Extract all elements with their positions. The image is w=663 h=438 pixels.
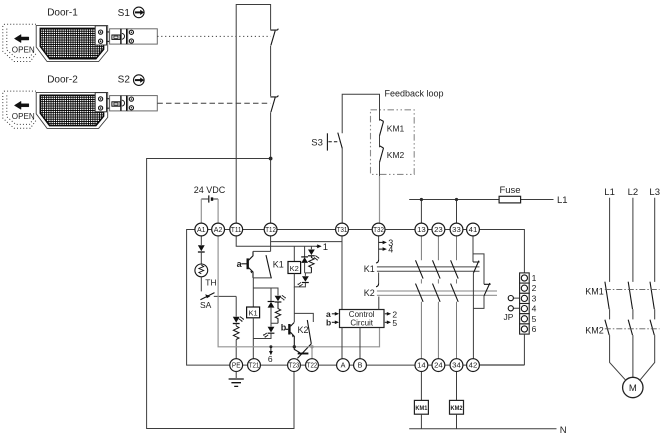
label Fuse: [499, 185, 520, 196]
svg-text:T32: T32: [373, 225, 384, 234]
LED indicator left: [233, 296, 244, 323]
svg-text:KM1: KM1: [585, 286, 604, 296]
label Door-1: [47, 7, 78, 18]
jumper pins JP: [508, 296, 519, 311]
svg-text:33: 33: [452, 225, 461, 234]
svg-text:TH: TH: [205, 277, 216, 287]
terminal 24: [432, 359, 445, 372]
contact 41-42 NC blade (K1 row): [473, 261, 480, 273]
KM1 linkage dash line: [605, 289, 660, 291]
terminal 34: [450, 359, 463, 372]
label N: [560, 425, 567, 436]
label K1 contact: [273, 260, 284, 270]
svg-text:L2: L2: [628, 187, 639, 198]
svg-text:KM2: KM2: [451, 405, 463, 412]
svg-text:Fuse: Fuse: [499, 185, 520, 196]
svg-text:24 VDC: 24 VDC: [194, 185, 226, 195]
label a: [237, 259, 243, 269]
label K2 contact: [298, 325, 309, 335]
contact 23-24 blades: [433, 260, 441, 302]
terminal A2: [212, 223, 225, 236]
relay contact K1 internal: [253, 251, 272, 278]
OPEN arrow door-2: [14, 101, 28, 109]
svg-text:M: M: [629, 383, 637, 394]
node b-emitter on gray net: [293, 345, 296, 348]
label K1 linkage: [364, 264, 375, 274]
svg-text:OPEN: OPEN: [12, 45, 35, 54]
wire L1 rail: [409, 200, 553, 224]
svg-text:4: 4: [532, 304, 537, 314]
terminal T21: [248, 359, 261, 372]
label S3: [311, 137, 323, 148]
svg-text:6: 6: [532, 324, 537, 334]
contact 41-42 NC blade (K2 row): [484, 283, 491, 296]
contact linkage bar K1: [377, 267, 480, 271]
svg-text:5: 5: [392, 318, 397, 328]
switch S3: [327, 133, 342, 151]
wire return path from T23: [147, 159, 294, 429]
actuation direction icon S2: [134, 75, 145, 86]
svg-text:Door-1: Door-1: [47, 7, 78, 18]
contact 13-14 blades: [416, 260, 424, 302]
terminal T22: [306, 359, 319, 372]
relay coil K1 box: [247, 307, 260, 318]
wire door-circuit loop left/top: [236, 5, 270, 224]
label net 1: [323, 242, 328, 253]
svg-text:b: b: [281, 322, 287, 332]
contact 33-34 pole wire: [456, 236, 458, 359]
contactor coil KM1: [414, 372, 428, 429]
wire A2 internal net (gray): [218, 236, 379, 359]
contactor contact KM2 phase L2: [628, 320, 632, 335]
terminal 13: [415, 223, 428, 236]
terminal T31: [336, 223, 349, 236]
label KM1 coil: [415, 405, 427, 412]
label Control Circuit: [349, 310, 375, 328]
wire battery to A1 (gray): [200, 199, 202, 223]
wire a-emitter to K1 coil: [252, 278, 254, 307]
door switch S1 actuator key: [107, 32, 110, 42]
contact S2 in loop: [270, 96, 278, 113]
label KM2 contactor: [585, 326, 604, 336]
arrow to 4: [379, 247, 387, 251]
OPEN arrow door-1: [14, 35, 28, 43]
door switch S2 hinge tab: [95, 93, 106, 112]
door-1 open position dotted outline: [3, 24, 36, 61]
svg-text:Circuit: Circuit: [350, 319, 373, 328]
transistor b: [286, 322, 295, 346]
svg-text:L1: L1: [557, 195, 568, 206]
contactor coil KM2: [450, 372, 464, 429]
door switch S2 body: [128, 96, 158, 111]
arrow input a: [332, 312, 339, 316]
svg-text:T31: T31: [337, 225, 348, 234]
door-1 hatched panel: [40, 28, 103, 58]
wire phase L1: [610, 198, 626, 381]
OPEN label door-2: [12, 112, 35, 121]
svg-text:Feedback loop: Feedback loop: [385, 88, 444, 98]
switch SA: [200, 277, 236, 300]
feedback loop boundary dash-dot box: [371, 110, 415, 175]
wire N rail: [409, 428, 556, 430]
label 6: [268, 354, 273, 364]
transistor a: [241, 251, 253, 278]
terminal T23: [288, 359, 301, 372]
terminal T12: [264, 223, 277, 236]
svg-text:S2: S2: [118, 75, 131, 86]
label b: [281, 322, 287, 332]
svg-text:PE: PE: [232, 361, 241, 370]
svg-text:L1: L1: [604, 187, 615, 198]
svg-text:b: b: [326, 318, 331, 328]
wire K1 coil to T21: [252, 318, 255, 359]
contactor contact KM1 phase L3: [650, 282, 654, 310]
arrow input b: [332, 321, 339, 325]
svg-text:Control: Control: [349, 310, 375, 319]
label 4: [388, 245, 393, 255]
label KM1 contactor: [585, 286, 604, 296]
KM2 linkage dash line: [605, 328, 660, 330]
svg-text:T21: T21: [249, 361, 260, 370]
door-2 open position dotted outline: [3, 91, 36, 128]
svg-text:B: B: [358, 361, 363, 370]
terminal PE: [230, 359, 243, 372]
labels JP pin numbers: [532, 273, 537, 334]
OPEN label door-1: [12, 45, 35, 54]
label KM2 coil: [451, 405, 463, 412]
label M: [629, 383, 637, 394]
svg-text:N: N: [560, 425, 567, 436]
LED chain right (diode pair + resistor): [294, 246, 319, 287]
door switch S1 body: [128, 29, 158, 44]
label Feedback loop: [385, 88, 444, 98]
label input a: [326, 309, 331, 319]
svg-text:K1: K1: [249, 309, 258, 318]
svg-text:KM1: KM1: [415, 405, 427, 412]
terminal 42: [467, 359, 480, 372]
wire door-circuit loop right segments: [270, 46, 272, 224]
jumper block JP: [520, 273, 530, 334]
svg-text:KM2: KM2: [585, 326, 604, 336]
door switch S2 actuator key: [107, 99, 110, 109]
diode D1: [198, 230, 205, 264]
control circuit box: [340, 310, 385, 328]
svg-text:23: 23: [434, 225, 443, 234]
wire S2 to safety circuit (dashed): [157, 102, 270, 104]
arrow output 5: [385, 321, 391, 325]
terminal 14: [415, 359, 428, 372]
svg-text:41: 41: [469, 225, 478, 234]
svg-text:K2: K2: [364, 288, 375, 298]
terminal 23: [432, 223, 445, 236]
contact 33-34 blades: [451, 260, 459, 302]
svg-text:K2: K2: [290, 264, 299, 273]
svg-text:1: 1: [532, 273, 537, 283]
battery 24VDC: [201, 195, 218, 202]
label output 2: [392, 309, 397, 319]
relay coil K2 box: [288, 246, 301, 273]
svg-text:A2: A2: [214, 225, 223, 234]
wire phase L3: [640, 198, 655, 381]
label 3: [388, 238, 393, 248]
SCR to T23: [294, 344, 311, 359]
door-2 hatched panel: [40, 95, 103, 125]
contactor contact KM2 phase L3: [650, 320, 654, 335]
svg-text:A: A: [341, 361, 346, 370]
door switch S2 head: [110, 96, 128, 111]
switch S1 label: [118, 8, 131, 19]
svg-text:1: 1: [323, 242, 328, 253]
contact 41-42 bypass branch: [473, 254, 484, 309]
door-2 panel outer edge: [36, 92, 108, 128]
label input b: [326, 318, 331, 328]
svg-text:T22: T22: [307, 361, 318, 370]
drive line hooks: [376, 260, 379, 287]
svg-text:2: 2: [532, 283, 537, 293]
svg-text:K1: K1: [364, 264, 375, 274]
door-1 panel outer edge: [36, 26, 108, 62]
svg-text:T23: T23: [289, 361, 300, 370]
svg-text:14: 14: [417, 361, 426, 370]
label SA: [200, 300, 212, 310]
svg-text:L3: L3: [649, 187, 660, 198]
svg-text:KM1: KM1: [387, 123, 405, 133]
svg-text:K2: K2: [298, 325, 309, 335]
svg-text:K1: K1: [273, 260, 284, 270]
door switch S1 hinge tab: [95, 26, 106, 45]
terminal T11: [230, 223, 243, 236]
svg-text:Door-2: Door-2: [47, 74, 78, 85]
contactor contact KM2 phase L1: [605, 320, 609, 335]
label KM2 feedback: [387, 150, 405, 160]
label TH: [205, 277, 216, 287]
wire control circuit to B: [359, 328, 361, 359]
svg-text:KM2: KM2: [387, 150, 405, 160]
label K1 coil: [249, 309, 258, 318]
label L1 rail: [557, 195, 568, 206]
arrow to 3: [379, 241, 387, 245]
svg-text:5: 5: [532, 314, 537, 324]
wire T31 to control circuit: [341, 236, 343, 310]
labels L1 L2 L3 phases: [604, 187, 660, 198]
svg-text:OPEN: OPEN: [12, 112, 35, 121]
label KM1 feedback: [387, 123, 405, 133]
svg-text:4: 4: [388, 245, 393, 255]
svg-text:JP: JP: [504, 312, 514, 322]
motor M: [623, 377, 643, 397]
svg-text:3: 3: [532, 293, 537, 303]
contact 13-14 pole wire: [420, 236, 422, 359]
wire phase L2: [632, 198, 634, 377]
wire control circuit to A: [341, 328, 343, 359]
svg-text:SA: SA: [200, 300, 212, 310]
wire feedback branch: [342, 94, 379, 223]
wire K2 coil branch to contact anchor: [294, 287, 313, 322]
contact KM1 feedback: [380, 119, 384, 136]
actuation direction icon S1: [134, 7, 145, 18]
fuse: [499, 196, 520, 203]
wire T11 internal rail (to 1): [236, 236, 321, 248]
contactor contact KM1 phase L1: [605, 282, 609, 310]
wire JP to terminal 42: [479, 334, 524, 365]
svg-text:S3: S3: [311, 137, 323, 148]
svg-text:34: 34: [452, 361, 461, 370]
label K2 coil: [290, 264, 299, 273]
svg-text:S1: S1: [118, 8, 131, 19]
LED chain middle (diode pair + resistor): [253, 288, 286, 339]
svg-text:A1: A1: [197, 225, 206, 234]
wire battery to A2 (gray): [217, 199, 219, 223]
contact linkage bar K2: [377, 291, 497, 295]
label 24 VDC: [194, 185, 226, 195]
thermistor TH: [195, 264, 208, 277]
node gray net T22 branch: [310, 345, 313, 348]
label JP: [504, 312, 514, 322]
svg-text:6: 6: [268, 354, 273, 364]
node L1 rail junctions: [420, 198, 458, 201]
wire T12 to T31 link: [271, 236, 342, 252]
contact 41-42 wire: [472, 236, 474, 359]
wire terminal 41 to JP: [479, 230, 524, 273]
terminal 33: [450, 223, 463, 236]
switch S2 label: [118, 75, 131, 86]
contact S1 in loop: [270, 29, 278, 46]
terminal A1: [195, 223, 208, 236]
svg-text:13: 13: [417, 225, 426, 234]
safety relay module outline / terminal rows: [187, 230, 525, 366]
label Door-2: [47, 74, 78, 85]
svg-text:T12: T12: [265, 225, 276, 234]
wire S1 to safety circuit (dotted): [157, 35, 270, 37]
relay contact K2 internal: [307, 320, 311, 344]
node junction loop/return: [269, 157, 273, 161]
contactor contact KM1 phase L2: [628, 282, 632, 310]
terminal A: [337, 359, 350, 372]
svg-text:42: 42: [469, 361, 478, 370]
resistor left chain: [233, 324, 239, 359]
label K2 linkage: [364, 288, 375, 298]
wire T32 drive line: [378, 236, 380, 310]
ground PE: [229, 372, 244, 387]
arrow output 2: [385, 312, 391, 316]
svg-text:T11: T11: [231, 225, 242, 234]
contact 23-24 pole wire: [437, 236, 439, 359]
contact KM2 feedback: [380, 146, 384, 163]
svg-text:24: 24: [434, 361, 443, 370]
terminal 41: [467, 223, 480, 236]
label output 5: [392, 318, 397, 328]
terminal B: [354, 359, 367, 372]
arrow to JP pin 6: [269, 345, 273, 355]
terminal T32: [372, 223, 385, 236]
door switch S1 head: [110, 29, 128, 44]
